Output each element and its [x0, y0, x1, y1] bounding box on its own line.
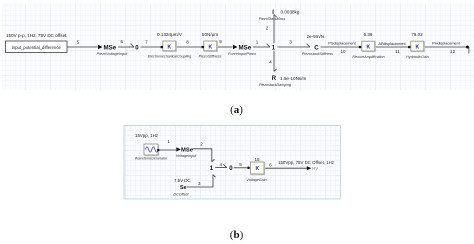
svg-text:K: K: [208, 44, 212, 50]
svg-text:Se: Se: [180, 185, 187, 191]
svg-text:HydraulicGain: HydraulicGain: [406, 55, 429, 59]
svg-text:0.0038kg: 0.0038kg: [281, 10, 300, 15]
svg-text:PiezostackStiffness: PiezostackStiffness: [302, 52, 333, 56]
svg-text:(b): (b): [230, 229, 244, 241]
svg-text:(a): (a): [230, 104, 243, 116]
svg-text:PiezoStiffness: PiezoStiffness: [199, 55, 222, 59]
svg-text:11: 11: [395, 49, 400, 54]
svg-text:HV: HV: [312, 166, 318, 171]
svg-text:ForceInputPiezo: ForceInputPiezo: [228, 52, 256, 56]
svg-text:AFdisplacement: AFdisplacement: [378, 42, 406, 46]
svg-text:K: K: [167, 44, 171, 50]
svg-text:input_potential_difference: input_potential_difference: [12, 45, 62, 50]
svg-text:PHdisplacement: PHdisplacement: [432, 42, 461, 46]
svg-text:FlexureAmplification: FlexureAmplification: [352, 55, 384, 59]
svg-text:150V p-p, 1Hz, 75V DC offset: 150V p-p, 1Hz, 75V DC offset: [6, 33, 67, 38]
svg-text:7.5V DC: 7.5V DC: [174, 178, 191, 183]
svg-text:150Vpp, 75V DC Offset, 1Hz: 150Vpp, 75V DC Offset, 1Hz: [278, 160, 334, 165]
svg-text:0.1334μm/V: 0.1334μm/V: [157, 32, 183, 37]
svg-text:PSdisplacement: PSdisplacement: [328, 42, 356, 46]
svg-text:VoltageGain: VoltageGain: [246, 178, 266, 182]
svg-text:C: C: [314, 45, 319, 51]
svg-text:MSe: MSe: [181, 147, 194, 153]
svg-text:15: 15: [254, 157, 260, 162]
svg-text:10: 10: [340, 49, 346, 54]
svg-text:R: R: [272, 76, 277, 82]
svg-text:K: K: [415, 45, 419, 51]
svg-text:1.5e-10Ns/m: 1.5e-10Ns/m: [280, 76, 306, 81]
svg-text:WaveformGenerator: WaveformGenerator: [135, 156, 168, 160]
svg-text:2e-9m/N: 2e-9m/N: [307, 34, 325, 39]
svg-text:79.02: 79.02: [411, 32, 423, 37]
svg-text:50N/μm: 50N/μm: [202, 32, 218, 37]
svg-text:DCOffset: DCOffset: [173, 192, 189, 196]
svg-text:15Vpp, 1Hz: 15Vpp, 1Hz: [135, 133, 158, 138]
svg-text:12: 12: [450, 49, 456, 54]
svg-text:6.39: 6.39: [364, 32, 373, 37]
svg-text:PiezostackDamping: PiezostackDamping: [259, 83, 291, 87]
svg-text:PiezoVoltageInput: PiezoVoltageInput: [97, 52, 129, 56]
svg-text:MSe: MSe: [239, 44, 252, 51]
svg-text:K: K: [255, 166, 259, 172]
svg-text:ElectromechanicalCoupling: ElectromechanicalCoupling: [148, 55, 192, 59]
svg-text:MSe: MSe: [104, 44, 117, 51]
svg-text:VoltageInput: VoltageInput: [176, 154, 198, 158]
svg-text:PiezoStackMass: PiezoStackMass: [259, 17, 286, 21]
svg-text:K: K: [366, 45, 370, 51]
